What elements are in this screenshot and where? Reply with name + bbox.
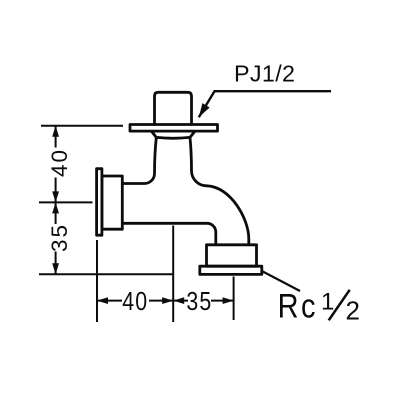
dimension text 40 (vertical): [47, 148, 72, 177]
leader line Rc1/2: [262, 271, 300, 291]
dimension text 40 (horizontal): [122, 287, 148, 317]
extension line vertical middle (body centerline): [172, 226, 174, 323]
svg-text:PJ1/2: PJ1/2: [234, 61, 295, 87]
inlet arm bottom line and inner elbow corner: [123, 223, 216, 245]
svg-text:35: 35: [47, 223, 72, 252]
extension line bottom-left (outlet flange bottom level): [39, 273, 173, 275]
bottom horizontal dimension line (broken at texts): [97, 300, 234, 302]
arrowhead of PJ leader: [195, 103, 209, 119]
arrowhead up at top extension: [52, 126, 59, 137]
label fraction slash: [329, 290, 350, 321]
arrowhead up at middle extension: [52, 202, 59, 213]
arrowhead right at x=233.6: [223, 297, 234, 304]
extension line vertical left (flange face): [96, 240, 98, 322]
svg-text:2: 2: [346, 296, 360, 326]
dimension text 35 (vertical): [47, 223, 72, 252]
arrowhead down at bottom extension: [52, 263, 59, 274]
svg-text:Rc: Rc: [278, 286, 318, 325]
arrowhead down at middle extension: [52, 191, 59, 202]
left socket body: [102, 176, 122, 229]
body neck right side, outer elbow curve down to spout: [190, 137, 249, 244]
label Rc: [278, 286, 318, 325]
extension line middle (inlet centerline level): [39, 201, 93, 203]
svg-text:40: 40: [122, 287, 148, 317]
leader line PJ1/2: [199, 91, 331, 117]
body neck left side into inlet arm top line: [123, 137, 157, 183]
spout collar: [207, 245, 257, 266]
collar under top flange: [152, 132, 195, 139]
extension line top (flange top level): [41, 125, 123, 127]
arrowhead left at x=173: [173, 297, 184, 304]
svg-text:1: 1: [321, 288, 334, 315]
dimension text 35 (horizontal): [186, 287, 212, 317]
top pipe (PJ threaded inlet): [155, 92, 192, 124]
arrowhead right at x=173: [162, 297, 173, 304]
bottom outlet flange (Rc): [200, 266, 262, 274]
extension line vertical right (outlet centerline): [233, 277, 235, 321]
svg-text:35: 35: [186, 287, 212, 317]
left wall flange plate: [97, 169, 102, 236]
left vertical dimension line (broken at texts): [55, 126, 57, 275]
svg-text:40: 40: [47, 148, 72, 177]
top flange: [130, 125, 218, 132]
arrowhead left at x=97: [97, 297, 108, 304]
